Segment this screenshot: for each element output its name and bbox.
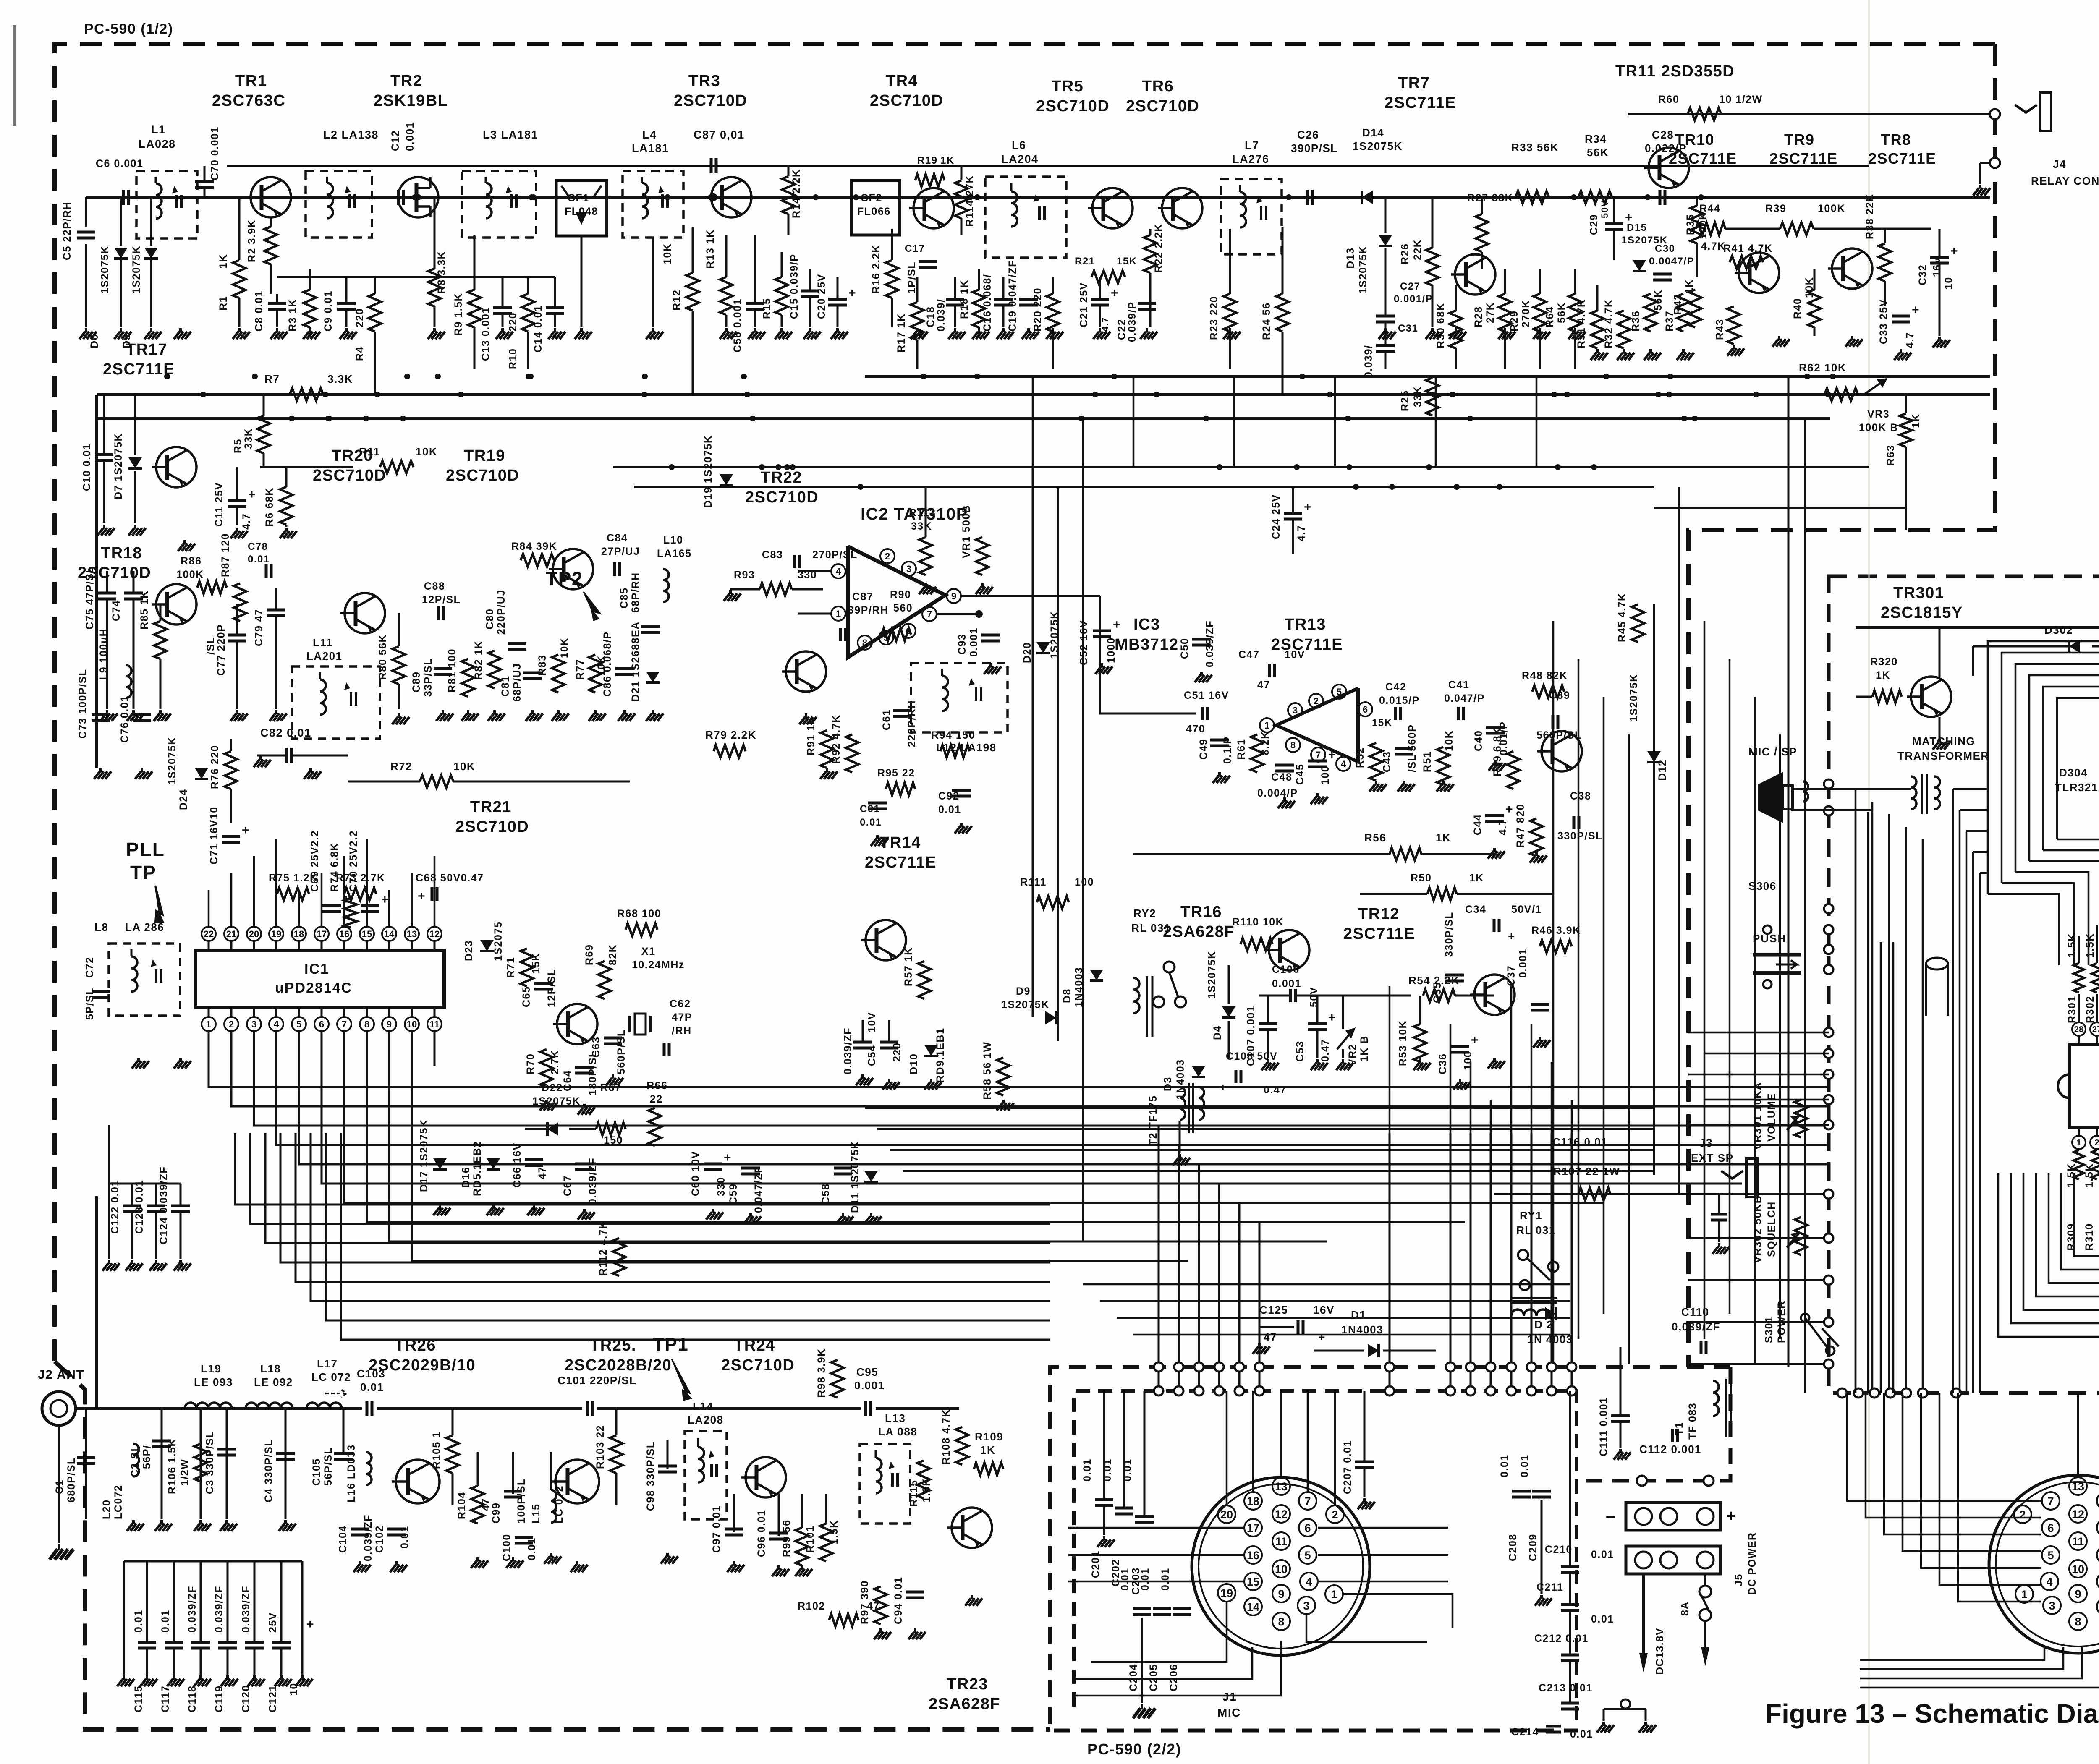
svg-text:C68 50V0.47: C68 50V0.47: [416, 872, 484, 884]
svg-text:1S2075K: 1S2075K: [1206, 951, 1218, 999]
svg-text:4.7: 4.7: [1497, 819, 1509, 835]
svg-text:C28: C28: [1652, 128, 1674, 141]
svg-text:2SC2028B/20: 2SC2028B/20: [565, 1356, 672, 1374]
svg-text:C26: C26: [1297, 128, 1319, 141]
svg-text:R34: R34: [1585, 133, 1607, 145]
svg-text:3: 3: [251, 1019, 256, 1030]
svg-text:D4: D4: [1212, 1025, 1223, 1040]
svg-text:12: 12: [2072, 1508, 2084, 1521]
potentiometer VR2 1K B: [1337, 1029, 1354, 1049]
svg-text:LA165: LA165: [657, 548, 692, 559]
wire J1 pin left wires: [1068, 1527, 1244, 1529]
svg-text:1: 1: [836, 609, 841, 619]
wire maze loop 2: [2002, 653, 2099, 951]
svg-text:D11 1S2075K: D11 1S2075K: [849, 1141, 861, 1213]
svg-text:1S2075K: 1S2075K: [1628, 674, 1640, 722]
svg-text:560P/SL: 560P/SL: [615, 1029, 627, 1074]
ground TR17 cluster: [103, 525, 105, 529]
wire PLL bus line 3: [254, 1031, 1829, 1126]
svg-text:D10: D10: [908, 1053, 920, 1074]
svg-text:C19 0.047/ZF: C19 0.047/ZF: [1007, 260, 1018, 332]
svg-text:C58: C58: [820, 1184, 832, 1205]
svg-text:LA201: LA201: [306, 650, 343, 662]
svg-text:J5: J5: [1733, 1573, 1745, 1586]
svg-text:4.7: 4.7: [1100, 317, 1110, 332]
svg-text:56K: 56K: [1652, 290, 1664, 311]
svg-text:FL066: FL066: [857, 206, 891, 217]
svg-text:Figure 13 – Schematic Diagram: Figure 13 – Schematic Diagram – 14T276 T…: [1765, 1699, 2099, 1729]
wire right trunk 4: [1788, 376, 1790, 1367]
connector J1 pin 1: [1325, 1585, 1343, 1603]
svg-text:D8: D8: [1061, 988, 1073, 1003]
connector circles on PC-590(2/2) top edges: [1154, 1362, 1163, 1372]
svg-text:R13 1K: R13 1K: [704, 229, 716, 269]
svg-text:R57 1K: R57 1K: [903, 947, 914, 986]
svg-text:470: 470: [1186, 723, 1205, 735]
wire C210 chain: [1569, 1391, 1571, 1567]
svg-text:0.039/ZF: 0.039/ZF: [213, 1586, 225, 1633]
transistor TR22: [786, 651, 826, 692]
IC2 pin 6: [901, 624, 916, 638]
svg-text:+: +: [306, 1618, 314, 1631]
svg-text:C27: C27: [1400, 281, 1421, 292]
svg-text:15K: 15K: [1117, 256, 1137, 267]
svg-text:R98 3.9K: R98 3.9K: [816, 1348, 827, 1398]
wire lower horizontal bus group: [1083, 1283, 1570, 1286]
svg-text:R9 1.5K: R9 1.5K: [453, 293, 464, 336]
svg-text:LA028: LA028: [139, 138, 176, 150]
svg-text:TR22: TR22: [761, 469, 802, 486]
svg-text:2SC710D: 2SC710D: [455, 818, 529, 836]
wire bus B: [97, 393, 1990, 396]
svg-text:R68 100: R68 100: [617, 908, 661, 920]
svg-text:0.001: 0.001: [854, 1379, 885, 1392]
svg-text:1K: 1K: [940, 155, 955, 166]
wire maze loop 3: [2015, 664, 2099, 940]
svg-text:12P/SL: 12P/SL: [546, 969, 557, 1007]
svg-text:C29: C29: [1588, 214, 1600, 235]
transistor TR21: [557, 1004, 597, 1044]
svg-text:R301: R301: [2066, 996, 2078, 1023]
transistor TR23: [952, 1508, 992, 1548]
svg-text:L20: L20: [101, 1499, 113, 1519]
svg-text:0.039/P: 0.039/P: [1126, 301, 1138, 342]
svg-text:C95: C95: [856, 1366, 878, 1378]
svg-text:C98 330P/SL: C98 330P/SL: [645, 1441, 657, 1511]
connector J301 pin 7: [2042, 1492, 2060, 1510]
connector J301 pin 15: [2097, 1573, 2099, 1590]
svg-text:68P/RH: 68P/RH: [630, 572, 641, 613]
wire J301 pin riser 13: [2077, 1393, 2079, 1477]
svg-text:J2 ANT: J2 ANT: [38, 1368, 84, 1382]
connector J301 pin 9: [2069, 1585, 2087, 1602]
ground TR23 cluster: [879, 1628, 882, 1633]
svg-text:R105 1: R105 1: [431, 1431, 442, 1469]
connector circles on 2/2 step edge: [1637, 1476, 1647, 1486]
svg-text:180P/SL: 180P/SL: [587, 1050, 599, 1095]
svg-text:8: 8: [862, 638, 867, 648]
wire horizontal bundle into box left: [1688, 1032, 1829, 1034]
svg-text:R302: R302: [2084, 996, 2096, 1023]
svg-text:R81 100: R81 100: [446, 648, 458, 693]
svg-text:VR302 50KB: VR302 50KB: [1752, 1195, 1764, 1263]
svg-text:–: –: [1606, 1507, 1616, 1525]
svg-text:16: 16: [339, 929, 349, 939]
ground C82: [259, 756, 262, 760]
svg-text:TR21: TR21: [470, 798, 512, 816]
svg-text:14: 14: [384, 929, 395, 939]
svg-text:TR16: TR16: [1180, 903, 1222, 921]
svg-text:R1: R1: [217, 296, 229, 311]
svg-text:R97 390: R97 390: [859, 1580, 871, 1624]
svg-text:TR25.: TR25.: [590, 1337, 636, 1354]
svg-text:C66 16V: C66 16V: [511, 1142, 523, 1188]
connector J301 pin 1: [2015, 1585, 2033, 1603]
svg-text:R79 2.2K: R79 2.2K: [705, 729, 756, 741]
svg-text:C119: C119: [213, 1686, 225, 1712]
svg-text:0.0047/P: 0.0047/P: [1649, 256, 1694, 267]
svg-text:C20 25V: C20 25V: [816, 274, 827, 319]
svg-text:C43: C43: [1381, 751, 1393, 772]
svg-text:R84 39K: R84 39K: [511, 541, 557, 552]
connector J301 pin 16: [2097, 1546, 2099, 1564]
svg-text:+: +: [724, 1151, 732, 1165]
svg-text:TR7: TR7: [1398, 74, 1430, 92]
wire IC2 pin7 out: [937, 613, 979, 615]
svg-text:TR5: TR5: [1052, 78, 1084, 95]
svg-text:C210: C210: [1545, 1544, 1573, 1555]
svg-text:5: 5: [2047, 1549, 2054, 1562]
wire PLL bus line 1: [209, 1031, 1829, 1087]
transistor TR24: [746, 1457, 786, 1497]
svg-text:R113: R113: [909, 507, 936, 519]
connector J1 pin 12: [1272, 1505, 1290, 1523]
wire IC2 aux link: [1032, 596, 1034, 621]
svg-text:6: 6: [319, 1019, 324, 1030]
svg-text:0.01: 0.01: [1591, 1549, 1614, 1560]
svg-text:0.039/ZF: 0.039/ZF: [842, 1027, 854, 1074]
svg-text:R99 56: R99 56: [781, 1519, 793, 1557]
svg-text:D15: D15: [1627, 222, 1647, 233]
svg-text:0.001: 0.001: [1517, 949, 1529, 978]
svg-text:16V: 16V: [1931, 256, 1943, 277]
svg-text:12: 12: [429, 929, 440, 939]
IC301 uPD2803C: [2070, 1044, 2099, 1127]
svg-text:L8: L8: [94, 921, 108, 933]
svg-text:R309: R309: [2065, 1223, 2077, 1251]
svg-text:0.1/P: 0.1/P: [1222, 736, 1233, 764]
svg-text:TR23: TR23: [947, 1675, 988, 1693]
svg-text:L16 LD033: L16 LD033: [345, 1444, 357, 1503]
svg-text:56P/: 56P/: [141, 1445, 153, 1469]
wire drop to PC-590(2/2) 8: [1571, 1133, 1573, 1391]
svg-text:C88: C88: [424, 580, 445, 592]
svg-text:C51 16V: C51 16V: [1184, 690, 1229, 701]
capacitor C115 misc: [862, 1020, 864, 1042]
svg-text:C16 0.068/: C16 0.068/: [981, 274, 993, 332]
svg-text:R69: R69: [584, 944, 595, 965]
nested U maze above J301: [1998, 1173, 2099, 1337]
svg-text:R2 3.9K: R2 3.9K: [246, 220, 258, 262]
svg-text:C118: C118: [186, 1686, 198, 1712]
svg-text:C123 0.01: C123 0.01: [133, 1180, 145, 1234]
svg-text:330P/SL: 330P/SL: [1443, 912, 1455, 957]
svg-text:R48 82K: R48 82K: [1522, 670, 1568, 682]
svg-text:100: 100: [1075, 876, 1094, 888]
connector J301 pin 6: [2042, 1519, 2060, 1537]
ground TR5 TR6 cluster: [1099, 328, 1101, 332]
wire mid horizontals under IC3: [865, 1107, 1654, 1109]
IC2 pin 1: [831, 606, 845, 621]
svg-text:RD5.1EB2: RD5.1EB2: [471, 1141, 483, 1197]
svg-text:C214: C214: [1511, 1726, 1539, 1738]
svg-text:C69 25V2.2: C69 25V2.2: [309, 830, 321, 892]
wire TR301 top rail: [1856, 626, 2099, 629]
wire left entries verticals: [1855, 812, 1857, 1393]
transistor TR16: [1269, 930, 1309, 970]
svg-text:2: 2: [885, 551, 890, 562]
svg-text:R19: R19: [917, 155, 938, 166]
svg-text:C122 0.01: C122 0.01: [109, 1180, 121, 1234]
svg-text:2SA628F: 2SA628F: [1163, 923, 1235, 941]
ground R93: [729, 590, 732, 594]
svg-text:7: 7: [927, 609, 932, 619]
wire left feed to C122 bank: [108, 1125, 110, 1184]
svg-text:TR10: TR10: [1675, 131, 1714, 148]
svg-text:2SC710D: 2SC710D: [870, 92, 943, 110]
svg-text:0.047/ZF: 0.047/ZF: [753, 1166, 764, 1213]
svg-text:L9 100uH: L9 100uH: [98, 628, 110, 680]
svg-text:560P: 560P: [1406, 724, 1418, 751]
wire drop to PC-590(2/2) 1: [1389, 1133, 1391, 1391]
svg-text:12: 12: [1275, 1508, 1288, 1521]
svg-text:1: 1: [1264, 720, 1269, 731]
svg-text:R64: R64: [1544, 306, 1556, 327]
svg-text:10: 10: [407, 1019, 417, 1030]
connector J1 MIC: [1192, 1477, 1370, 1655]
svg-text:1K: 1K: [1469, 872, 1484, 884]
IC3 pin 6: [1358, 702, 1372, 716]
svg-text:R31 4.7K: R31 4.7K: [1576, 299, 1587, 348]
svg-text:R17 1K: R17 1K: [895, 313, 907, 353]
svg-text:X1: X1: [641, 946, 656, 957]
svg-text:10.24MHz: 10.24MHz: [632, 959, 685, 971]
svg-text:39P/RH: 39P/RH: [848, 604, 889, 616]
connector J301 pin 11: [2069, 1532, 2087, 1550]
svg-text:C44: C44: [1472, 814, 1484, 835]
svg-text:TR14: TR14: [879, 834, 921, 852]
svg-text:17: 17: [317, 929, 327, 939]
svg-text:+: +: [1726, 1507, 1737, 1525]
svg-text:C59: C59: [728, 1184, 739, 1205]
svg-text:TR24: TR24: [734, 1337, 775, 1354]
IC2 pin 7: [922, 607, 937, 621]
svg-text:0.01: 0.01: [1570, 1728, 1593, 1740]
svg-text:1N4003: 1N4003: [1073, 967, 1085, 1007]
svg-text:C37: C37: [1505, 965, 1517, 986]
svg-text:TP: TP: [130, 862, 157, 883]
svg-text:R52: R52: [1354, 747, 1366, 768]
fuse 8A: [1704, 1574, 1706, 1586]
svg-text:C72: C72: [84, 957, 96, 978]
svg-text:TR301: TR301: [1893, 584, 1945, 602]
terminal block J5 plus: [1626, 1546, 1720, 1574]
svg-text:1.5K: 1.5K: [2084, 933, 2096, 958]
svg-text:100: 100: [1462, 1051, 1474, 1070]
svg-text:2: 2: [2019, 1508, 2026, 1521]
svg-text:15: 15: [1247, 1576, 1259, 1588]
svg-text:1S2075K: 1S2075K: [1001, 999, 1049, 1011]
svg-text:4: 4: [2046, 1576, 2052, 1588]
svg-text:L15: L15: [530, 1503, 542, 1524]
connector J1 pin 5: [1299, 1546, 1316, 1564]
svg-text:15K: 15K: [1372, 717, 1392, 729]
svg-text:R80 56K: R80 56K: [377, 634, 389, 680]
svg-text:R40: R40: [1792, 298, 1803, 319]
svg-text:+: +: [381, 893, 389, 907]
svg-text:L14: L14: [693, 1400, 713, 1413]
svg-text:VR3: VR3: [1867, 408, 1890, 420]
svg-text:9: 9: [951, 591, 956, 601]
ground TR7 cluster: [1384, 328, 1387, 332]
svg-text:R60: R60: [1658, 94, 1679, 105]
svg-text:R112 4.7K: R112 4.7K: [597, 1220, 609, 1276]
svg-text:18: 18: [1247, 1495, 1259, 1508]
svg-text:VR301 10KA: VR301 10KA: [1752, 1082, 1764, 1150]
inductor L12 LA198: [911, 663, 1008, 732]
svg-text:2.7K: 2.7K: [549, 1050, 561, 1074]
svg-text:22: 22: [204, 929, 214, 939]
svg-text:R63: R63: [1885, 445, 1897, 466]
svg-text:10V: 10V: [866, 1012, 878, 1032]
svg-text:82K: 82K: [607, 944, 619, 965]
svg-text:1: 1: [2021, 1588, 2027, 1601]
wire bus E mid: [634, 486, 1654, 488]
svg-text:2SA628F: 2SA628F: [929, 1695, 1000, 1713]
svg-text:MB3712: MB3712: [1115, 636, 1179, 653]
svg-text:PLL: PLL: [126, 839, 165, 860]
svg-text:D 2: D 2: [1534, 1318, 1553, 1331]
svg-text:8.2K: 8.2K: [1259, 731, 1271, 755]
svg-text:VR1 500B: VR1 500B: [961, 505, 972, 558]
svg-text:56K: 56K: [1556, 302, 1568, 323]
svg-text:14: 14: [1247, 1601, 1259, 1613]
connector J301 pin 5: [2042, 1546, 2060, 1564]
svg-text:10K: 10K: [416, 445, 437, 458]
svg-text:R56: R56: [1364, 831, 1386, 844]
svg-text:C64: C64: [562, 1070, 573, 1091]
transistor TR26: [396, 1460, 440, 1503]
ground L4: [652, 328, 654, 332]
svg-text:TR18: TR18: [101, 544, 142, 562]
ground IC1 lower cluster: [439, 1205, 441, 1209]
wire maze loop 6: [2057, 698, 2099, 907]
svg-text:7: 7: [342, 1019, 347, 1030]
svg-text:R67: R67: [600, 1082, 621, 1094]
svg-text:8: 8: [364, 1019, 369, 1030]
wire J1 pin 3 drop: [1306, 1614, 1427, 1642]
board TR301 section dashed box: [1829, 576, 2099, 1393]
svg-text:C5 22P/RH: C5 22P/RH: [61, 201, 73, 260]
wire bus C: [97, 417, 1830, 420]
svg-text:390P/SL: 390P/SL: [1291, 142, 1338, 154]
svg-text:4: 4: [274, 1019, 279, 1030]
svg-text:RELAY CONTRLE: RELAY CONTRLE: [2031, 175, 2099, 187]
svg-text:9: 9: [387, 1019, 392, 1030]
svg-text:56K: 56K: [1587, 146, 1609, 159]
svg-text:15K: 15K: [530, 953, 542, 974]
svg-text:D13: D13: [1345, 248, 1356, 269]
svg-text:C78: C78: [248, 541, 268, 552]
svg-text:TR12: TR12: [1358, 905, 1400, 923]
wire PLL bus line 10: [412, 1031, 1188, 1261]
svg-text:D9: D9: [1016, 985, 1031, 997]
wire J5 leads: [1642, 1574, 1645, 1654]
junction dots: [641, 392, 647, 397]
transistor TR17: [156, 447, 196, 487]
wire left vertical feed lower: [95, 1196, 98, 1409]
svg-text:20: 20: [249, 929, 259, 939]
svg-text:R45 4.7K: R45 4.7K: [1616, 593, 1628, 642]
svg-text:25V: 25V: [267, 1612, 279, 1633]
wire speaker to transformer: [1791, 788, 1911, 790]
wire drop to J1 area 4: [1218, 1184, 1220, 1391]
svg-text:R6 68K: R6 68K: [264, 487, 275, 527]
wire mid trunk at IC2: [1032, 467, 1034, 1017]
filter CF1 FL048: [556, 180, 607, 236]
svg-text:C18: C18: [925, 306, 937, 327]
ground C122 bank: [108, 1260, 110, 1264]
svg-text:R61: R61: [1235, 739, 1247, 760]
wire J301 bottom drops: [1860, 1647, 2044, 1660]
svg-text:R26: R26: [1399, 243, 1411, 264]
svg-text:LA276: LA276: [1232, 153, 1269, 165]
ground CF1: [580, 328, 583, 332]
svg-text:C208: C208: [1507, 1534, 1519, 1561]
svg-text:C96 0.01: C96 0.01: [756, 1510, 767, 1557]
svg-text:19: 19: [271, 929, 281, 939]
svg-text:3: 3: [1293, 705, 1298, 716]
svg-text:C79 47: C79 47: [253, 609, 265, 646]
connector J301 pin 12: [2069, 1505, 2087, 1523]
wire J1 pin 1 wire: [1343, 1594, 1453, 1628]
svg-text:C117: C117: [160, 1686, 171, 1712]
svg-text:5: 5: [1337, 687, 1342, 697]
svg-text:2SC711E: 2SC711E: [1669, 150, 1737, 167]
svg-text:C87 0,01: C87 0,01: [694, 128, 745, 141]
ground L8: [137, 1058, 140, 1062]
svg-text:0.01: 0.01: [1591, 1613, 1614, 1625]
svg-text:C212 0.01: C212 0.01: [1534, 1633, 1589, 1644]
svg-text:0.01: 0.01: [1102, 1458, 1113, 1482]
svg-text:R111: R111: [1020, 876, 1047, 888]
ground J4: [1979, 185, 1981, 189]
svg-text:1P/SL: 1P/SL: [906, 261, 918, 294]
svg-text:C73 100P/SL: C73 100P/SL: [77, 669, 89, 739]
ground PA input cluster: [132, 1520, 135, 1524]
wire drop to J1 area 3: [1198, 1164, 1200, 1391]
svg-text:C67: C67: [562, 1175, 573, 1196]
connector J1 pin 6: [1299, 1519, 1316, 1537]
ground TR14 lower cluster: [861, 1074, 864, 1079]
svg-text:TR26: TR26: [395, 1337, 436, 1354]
wire IC1 pin 11 drop: [434, 1031, 436, 1066]
svg-text:2SC710D: 2SC710D: [745, 489, 819, 506]
svg-text:4: 4: [1341, 759, 1346, 769]
svg-text:TR4: TR4: [886, 72, 918, 90]
svg-text:RY2: RY2: [1133, 907, 1156, 920]
svg-text:0.001: 0.001: [404, 122, 416, 151]
